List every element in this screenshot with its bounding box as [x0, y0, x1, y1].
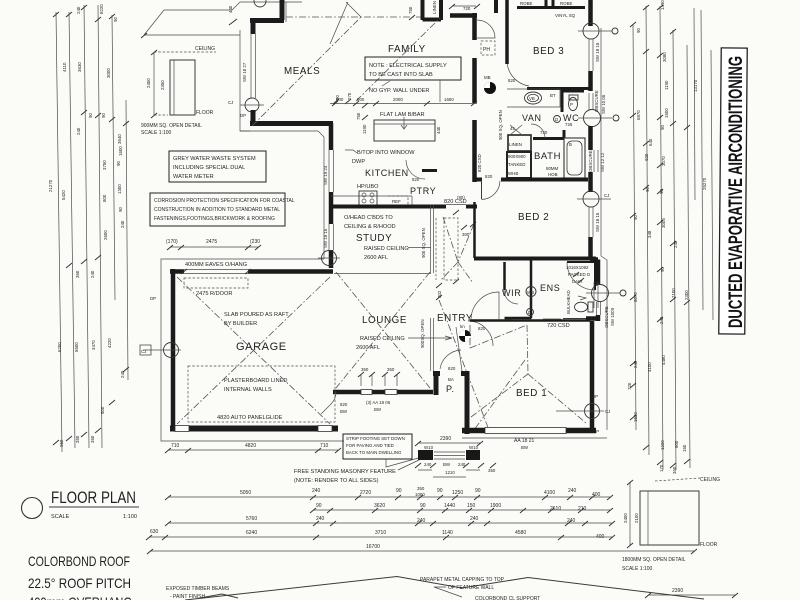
svg-text:VAN: VAN: [522, 113, 542, 123]
svg-text:NOTE : ELECTRICAL SUPPLY: NOTE : ELECTRICAL SUPPLY: [369, 63, 447, 69]
free standing note: [294, 459, 421, 484]
PH dashed box: [481, 41, 495, 55]
svg-text:FLOOR: FLOOR: [196, 110, 214, 116]
svg-text:COLORBOND ROOF: COLORBOND ROOF: [28, 553, 130, 569]
svg-text:348: 348: [647, 230, 652, 238]
wall: bed3 south: [527, 87, 589, 90]
svg-text:FLOOR PLAN: FLOOR PLAN: [51, 488, 136, 507]
corrosion note box: [150, 193, 295, 226]
svg-text:HOB: HOB: [548, 172, 558, 177]
svg-text:800: 800: [102, 194, 107, 202]
svg-text:440: 440: [436, 126, 441, 134]
svg-text:B/TOP INTO WINDOW: B/TOP INTO WINDOW: [357, 150, 415, 156]
svg-text:D: D: [528, 310, 531, 315]
rake diagonals study/entry: [431, 205, 434, 371]
svg-text:3750: 3750: [102, 160, 107, 170]
bath tub: [564, 138, 585, 178]
dim string above garage: [166, 239, 261, 250]
svg-text:750: 750: [356, 112, 361, 120]
svg-text:8220: 8220: [99, 4, 104, 14]
ens shower: [566, 262, 595, 290]
svg-text:1190: 1190: [362, 124, 367, 134]
wall: meals south: [250, 121, 333, 126]
wall: family north segment: [449, 4, 480, 16]
wall: van/bath divider: [531, 124, 564, 139]
svg-text:P.: P.: [446, 384, 455, 394]
lounge sw door: [321, 392, 348, 414]
svg-text:820: 820: [412, 177, 420, 182]
wall: garage south: [170, 426, 338, 432]
svg-text:920: 920: [644, 153, 649, 161]
svg-text:1600: 1600: [118, 146, 123, 156]
svg-text:BED 2: BED 2: [518, 212, 549, 223]
svg-text:3470: 3470: [91, 340, 96, 350]
svg-text:4100: 4100: [647, 362, 652, 372]
svg-text:OBSCURE: OBSCURE: [594, 90, 599, 112]
wall: ens south: [586, 316, 600, 321]
dim line below garage: [165, 443, 341, 453]
svg-text:900 SQ. OPEN: 900 SQ. OPEN: [498, 110, 503, 140]
entry door to bed1 hall: [468, 321, 493, 346]
svg-text:PH: PH: [483, 47, 490, 53]
svg-text:240: 240: [120, 370, 125, 378]
svg-text:3005: 3005: [661, 218, 666, 228]
CJ circle meals west wall: [228, 98, 264, 118]
svg-text:3080: 3080: [662, 52, 667, 62]
svg-text:350: 350: [417, 486, 425, 491]
svg-text:3000: 3000: [106, 68, 111, 78]
svg-text:750: 750: [408, 6, 413, 14]
svg-text:5050: 5050: [240, 490, 251, 496]
svg-text:BED 3: BED 3: [533, 46, 564, 57]
svg-text:CEILING & R/HOOD: CEILING & R/HOOD: [344, 224, 396, 230]
svg-text:EXPOSED TIMBER BEAMS: EXPOSED TIMBER BEAMS: [166, 586, 230, 592]
dim 2390 porch: [415, 436, 483, 446]
eave east side: [601, 28, 607, 430]
svg-text:1800MM SQ. OPEN DETAIL: 1800MM SQ. OPEN DETAIL: [622, 557, 686, 563]
svg-text:DP: DP: [240, 113, 246, 118]
bath notes: [546, 166, 559, 177]
svg-text:350: 350: [488, 468, 496, 473]
svg-text:210: 210: [578, 506, 587, 512]
svg-text:B: B: [569, 142, 572, 147]
svg-text:1500: 1500: [664, 108, 669, 118]
svg-text:PLASTERBOARD LINED: PLASTERBOARD LINED: [224, 378, 287, 384]
window label lounge: [366, 400, 391, 412]
svg-text:2610: 2610: [550, 506, 561, 512]
svg-text:SW 12 12: SW 12 12: [600, 152, 605, 172]
wall: bed1 east: [590, 321, 595, 430]
cooktop: [359, 191, 377, 205]
svg-text:OBSCURE: OBSCURE: [588, 150, 593, 172]
svg-text:440: 440: [228, 5, 233, 13]
svg-text:950: 950: [59, 439, 64, 447]
svg-text:240: 240: [458, 462, 466, 467]
svg-text:RAISED CEILING: RAISED CEILING: [360, 336, 405, 342]
svg-text:1140: 1140: [442, 530, 453, 536]
svg-text:90: 90: [118, 207, 123, 212]
leader from note: [382, 80, 440, 102]
720 csd ens: [543, 319, 570, 329]
svg-text:6240: 6240: [246, 530, 257, 536]
svg-text:SW 19 24: SW 19 24: [323, 165, 328, 185]
svg-text:SCALE: SCALE: [51, 514, 70, 520]
svg-text:LINEN: LINEN: [509, 142, 522, 147]
svg-text:CJ: CJ: [228, 100, 233, 105]
svg-text:SCALE 1:100: SCALE 1:100: [141, 130, 172, 136]
dim ticks near meals SE: [333, 92, 352, 104]
strip footing note box: [343, 434, 422, 467]
svg-text:21270: 21270: [48, 179, 53, 192]
svg-text:820: 820: [340, 402, 348, 407]
400mm eaves o/hang label: [185, 262, 247, 268]
left dimension labels (rotated): [48, 4, 125, 447]
ridge line at top: [285, 2, 287, 22]
svg-text:BT: BT: [550, 93, 556, 98]
CJ circle garage west: [140, 343, 181, 358]
svg-text:600: 600: [336, 97, 344, 102]
eave along meals south / study west: [240, 131, 324, 259]
eave hip family top-left: [330, 2, 361, 44]
svg-text:900SQ. OPEN: 900SQ. OPEN: [420, 319, 425, 348]
wall: meals west lower: [251, 110, 256, 122]
eave south of bed1: [462, 437, 607, 439]
svg-text:3630: 3630: [77, 62, 82, 72]
svg-text:2600: 2600: [103, 230, 108, 240]
svg-text:1250: 1250: [452, 490, 463, 496]
rake X lounge: [336, 272, 430, 388]
svg-text:900X900: 900X900: [508, 154, 526, 159]
svg-text:2600 AFL: 2600 AFL: [356, 345, 380, 351]
svg-text:6870: 6870: [636, 110, 641, 120]
svg-text:710: 710: [320, 443, 329, 449]
svg-text:STRIP FOOTING SET DOWN: STRIP FOOTING SET DOWN: [346, 436, 405, 441]
svg-text:5500: 5500: [74, 342, 79, 352]
svg-text:2300: 2300: [684, 290, 689, 300]
dims below piers: [415, 462, 496, 477]
svg-text:BA: BA: [448, 377, 454, 382]
right dimension chain lines: [630, 5, 713, 470]
svg-text:INCLUDING SPECIAL DUAL: INCLUDING SPECIAL DUAL: [173, 165, 245, 171]
svg-text:13170: 13170: [693, 79, 698, 92]
CJ circle top edge: [254, 0, 266, 7]
svg-text:WATER METER: WATER METER: [173, 174, 214, 180]
svg-text:90: 90: [316, 503, 322, 509]
dashed rect garage: [188, 366, 335, 422]
wall: east exterior top: [588, 0, 593, 26]
window obscure wc east: [589, 93, 593, 110]
svg-text:1530: 1530: [633, 412, 638, 422]
north/power symbol entry: [459, 324, 471, 342]
svg-text:BATH: BATH: [534, 151, 561, 162]
svg-text:BULKHEAD: BULKHEAD: [566, 290, 571, 314]
eave line west of meals: [240, 30, 250, 131]
svg-text:4820: 4820: [245, 443, 256, 449]
ens obscure window: [594, 282, 615, 328]
left dimension chain lines: [53, 5, 129, 452]
svg-text:WHB: WHB: [508, 171, 518, 176]
svg-text:INTERNAL WALLS: INTERNAL WALLS: [224, 387, 272, 393]
bottom dimension row 5 overall: [147, 544, 697, 554]
svg-text:2600 AFL: 2600 AFL: [364, 255, 388, 261]
svg-text:CJ: CJ: [604, 193, 609, 198]
svg-text:1300: 1300: [117, 184, 122, 194]
porch piers and steps: [418, 445, 480, 460]
kitchen bench: [331, 184, 412, 205]
svg-text:OF FEATURE WALL: OF FEATURE WALL: [448, 585, 494, 591]
svg-text:(3) AA 18 06: (3) AA 18 06: [366, 400, 391, 405]
family north eave dash line: [286, 16, 421, 18]
svg-text:90: 90: [633, 215, 638, 220]
svg-text:- PAINT FINISH: - PAINT FINISH: [170, 594, 205, 600]
svg-text:270: 270: [347, 92, 352, 100]
svg-text:SW 18 16: SW 18 16: [323, 228, 328, 248]
wall: garage west: [171, 269, 176, 430]
wall: kitchen south: [331, 205, 412, 209]
svg-text:REF: REF: [392, 199, 401, 204]
CJ circle bed1 east: [556, 394, 610, 434]
svg-text:PARAPET METAL CAPPING TO TOP: PARAPET METAL CAPPING TO TOP: [420, 577, 505, 583]
svg-text:90: 90: [116, 161, 121, 166]
svg-text:2400: 2400: [146, 78, 151, 88]
svg-text:WB: WB: [527, 290, 534, 295]
svg-text:820: 820: [508, 78, 516, 83]
svg-text:3070: 3070: [661, 156, 666, 166]
svg-text:CORROSION PROTECTION SPECIFICA: CORROSION PROTECTION SPECIFICATION FOR C…: [154, 198, 295, 204]
svg-text:240: 240: [633, 360, 638, 368]
svg-text:6200: 6200: [57, 342, 62, 352]
svg-text:350: 350: [361, 367, 369, 372]
svg-text:90: 90: [636, 28, 641, 33]
svg-text:90: 90: [660, 267, 665, 272]
wall: meals north step horizontal: [250, 18, 284, 23]
svg-text:FAMILY: FAMILY: [388, 44, 426, 55]
svg-text:720 CSD: 720 CSD: [547, 323, 570, 329]
svg-text:1190: 1190: [664, 80, 669, 90]
svg-text:240: 240: [424, 462, 432, 467]
svg-text:820: 820: [448, 366, 456, 371]
svg-text:DP: DP: [592, 394, 598, 399]
bed1 door arc: [471, 292, 499, 320]
svg-text:5760: 5760: [246, 516, 257, 522]
svg-text:1016X1092: 1016X1092: [566, 265, 589, 270]
svg-text:GREY WATER WASTE SYSTEM: GREY WATER WASTE SYSTEM: [173, 156, 256, 162]
svg-text:CEILING: CEILING: [195, 46, 215, 52]
robe top walls: [496, 0, 585, 18]
svg-text:3640: 3640: [117, 134, 122, 144]
svg-text:240: 240: [120, 220, 125, 228]
svg-text:TANKED: TANKED: [508, 162, 525, 167]
svg-text:ROBE: ROBE: [520, 1, 533, 6]
wall: meals NW step vertical top: [280, 0, 285, 20]
rake diagonal family: [356, 18, 440, 101]
svg-text:KITCHEN: KITCHEN: [365, 168, 409, 178]
svg-text:240: 240: [76, 127, 81, 135]
svg-text:150: 150: [682, 444, 687, 452]
svg-text:O/HEAD C'BDS TO: O/HEAD C'BDS TO: [344, 215, 393, 221]
wall: family east: [472, 13, 477, 182]
svg-text:900MM SQ. OPEN DETAIL: 900MM SQ. OPEN DETAIL: [141, 123, 202, 129]
svg-text:BY BUILDER: BY BUILDER: [224, 321, 257, 327]
dashed column entry/study: [436, 210, 476, 284]
CJ circle study west: [318, 251, 340, 266]
svg-text:CEILING: CEILING: [700, 477, 720, 483]
rake diagonals entry to porch: [439, 300, 525, 430]
svg-text:2475: 2475: [206, 239, 217, 245]
svg-text:PTRY: PTRY: [410, 186, 436, 196]
wall: kitchen/study west with windows: [323, 123, 334, 268]
svg-text:240: 240: [76, 6, 81, 14]
obscure window east wc: [578, 90, 619, 126]
svg-text:FLAT LAM B/BAR: FLAT LAM B/BAR: [380, 112, 425, 118]
svg-text:400: 400: [592, 492, 601, 498]
svg-text:4480: 4480: [661, 355, 666, 365]
svg-text:HP/UBO: HP/UBO: [357, 184, 379, 190]
svg-text:6070: 6070: [633, 292, 638, 302]
wc D circle and 726: [554, 116, 573, 128]
grey water note box: [169, 151, 266, 182]
porch P walls: [433, 327, 467, 434]
svg-text:240: 240: [470, 516, 479, 522]
svg-text:kn: kn: [460, 324, 465, 329]
svg-text:630: 630: [150, 529, 159, 535]
svg-text:16700: 16700: [366, 544, 380, 550]
svg-text:1900: 1900: [490, 503, 501, 509]
wall: entry east / bed2 west lower: [473, 202, 476, 258]
wall: meals west upper: [251, 18, 256, 34]
svg-text:VINYL SQ: VINYL SQ: [555, 13, 576, 18]
svg-text:240: 240: [316, 516, 325, 522]
svg-text:90: 90: [113, 17, 118, 22]
slab note garage: [224, 312, 289, 327]
b/top into window note: [345, 150, 415, 165]
svg-text:820: 820: [478, 326, 486, 331]
svg-text:BED 1: BED 1: [516, 388, 547, 399]
bottom dimension row 4: [146, 529, 615, 540]
wall: bed1 north: [470, 319, 590, 322]
svg-text:W10: W10: [424, 445, 434, 450]
island bench: [356, 103, 441, 141]
svg-text:2350: 2350: [160, 80, 165, 90]
bottom dimension row 1: [165, 486, 613, 500]
marker circle east wall top: [578, 23, 618, 39]
elevation fragment at bottom: [166, 577, 704, 600]
svg-text:SW 18 15: SW 18 15: [595, 212, 600, 232]
svg-text:MEALS: MEALS: [284, 66, 320, 77]
bed2 door: [457, 174, 500, 200]
svg-text:4110: 4110: [62, 62, 67, 72]
study lounge boundary line: [334, 273, 431, 275]
svg-text:VB: VB: [529, 96, 535, 101]
svg-text:SLAB POURED AS RAFT: SLAB POURED AS RAFT: [224, 312, 289, 318]
svg-text:710: 710: [171, 443, 180, 449]
svg-text:SW 18 27: SW 18 27: [242, 62, 247, 82]
wall: east exterior seg2: [588, 71, 593, 91]
svg-text:5420: 5420: [61, 190, 66, 200]
svg-text:1490: 1490: [660, 0, 665, 10]
wir walls: [504, 258, 532, 321]
svg-text:2000: 2000: [393, 97, 403, 102]
eaves outline top-left corner: [141, 2, 302, 38]
bed3 door arc: [507, 60, 529, 86]
meter black circle: [484, 75, 496, 94]
door arc family east: [477, 20, 495, 38]
302 dim entry top: [436, 283, 442, 300]
svg-text:BW: BW: [374, 407, 382, 412]
svg-text:900: 900: [357, 97, 365, 102]
svg-text:90: 90: [660, 125, 665, 130]
bottom dimension row 3: [165, 516, 615, 540]
svg-text:SW 1009: SW 1009: [610, 307, 615, 326]
bottom dimension row 2: [310, 503, 613, 513]
svg-text:4220: 4220: [107, 338, 112, 348]
svg-text:4100: 4100: [544, 490, 555, 496]
bath shower: [507, 152, 531, 178]
wall: lounge south with windows: [333, 367, 433, 395]
CJ circle east bed2: [577, 191, 611, 207]
svg-text:NO GYP. WALL UNDER: NO GYP. WALL UNDER: [369, 88, 429, 94]
svg-text:400MM EAVES O/HANG: 400MM EAVES O/HANG: [185, 262, 247, 268]
window SW 18 15 bed3: [589, 39, 600, 71]
svg-text:3710: 3710: [375, 530, 386, 536]
svg-text:80MM: 80MM: [546, 166, 559, 171]
svg-text:90: 90: [420, 503, 426, 509]
svg-text:DAIR: DAIR: [572, 279, 583, 284]
svg-text:240: 240: [312, 488, 321, 494]
svg-text:820: 820: [485, 174, 493, 179]
svg-text:D: D: [555, 117, 558, 122]
svg-text:AA 18 21: AA 18 21: [514, 438, 535, 444]
svg-text:CJ: CJ: [141, 349, 146, 354]
wall: bed1 south with window: [462, 428, 596, 451]
svg-text:(230: (230: [250, 239, 260, 245]
raised ceiling note study: [364, 246, 431, 261]
svg-text:240: 240: [567, 518, 576, 524]
svg-text:COLORBOND CL SUPPORT: COLORBOND CL SUPPORT: [475, 596, 540, 600]
svg-text:MB: MB: [484, 75, 491, 80]
svg-text:4820 AUTO PANELGLIDE: 4820 AUTO PANELGLIDE: [217, 415, 283, 421]
svg-text:600: 600: [674, 440, 679, 448]
svg-text:OBSCURE: OBSCURE: [604, 306, 609, 328]
svg-text:240: 240: [417, 518, 426, 524]
svg-text:240: 240: [673, 240, 678, 248]
plasterboard note garage: [224, 378, 287, 393]
1800mm sq open detail (bottom right): [622, 477, 738, 598]
svg-text:720: 720: [463, 6, 471, 11]
right dimension labels (rotated): [627, 0, 707, 474]
svg-text:RAISED CEILING: RAISED CEILING: [364, 246, 409, 252]
svg-text:ROBE: ROBE: [560, 1, 573, 6]
svg-text:400mm OVERHANG: 400mm OVERHANG: [28, 594, 132, 600]
svg-text:90: 90: [88, 113, 93, 118]
wall: ptry south with 820 csd: [412, 199, 477, 207]
svg-text:1220: 1220: [660, 440, 665, 450]
window SW 18 15 bed2: [589, 207, 600, 237]
ducted evaporative airconditioning box: [719, 48, 747, 334]
svg-text:2475 R/DOOR: 2475 R/DOOR: [196, 291, 232, 297]
svg-text:350: 350: [387, 367, 395, 372]
svg-text:BW: BW: [521, 445, 529, 450]
svg-text:1210: 1210: [445, 470, 455, 475]
wall: family north (linen closet): [408, 0, 441, 20]
svg-text:(80): (80): [457, 195, 465, 200]
svg-text:2720: 2720: [360, 490, 371, 496]
svg-text:FLOOR: FLOOR: [700, 542, 718, 548]
ptry curved wall and door: [406, 160, 437, 182]
svg-text:LOUNGE: LOUNGE: [362, 315, 407, 326]
wall: garage north with r/door: [170, 269, 333, 297]
wall: bath south: [476, 178, 588, 182]
